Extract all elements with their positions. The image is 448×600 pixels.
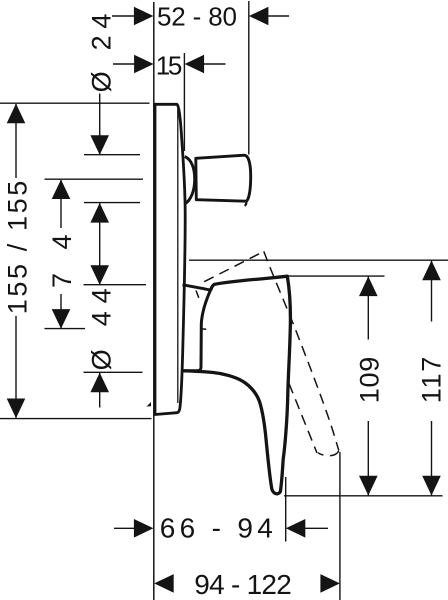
svg-text:Ø 24: Ø 24 [87,14,117,93]
arrow right 66-94 left [134,519,154,538]
plate front face inner line [177,109,179,403]
sleeve front edge [184,325,202,371]
dashed top edge [204,251,264,281]
svg-text:109: 109 [355,357,385,404]
tick lever axis [45,328,86,330]
dimension dia24 line [99,94,101,155]
lever cap skirt line [201,290,210,325]
knob neck arc [185,157,195,204]
dimension 117 line [431,261,433,322]
extension line plate bottom [0,418,152,420]
dimension texts [156,1,237,80]
svg-text:117: 117 [417,357,447,404]
svg-text:Ø 44: Ø 44 [87,288,117,370]
dimension 109 line [367,276,369,339]
wall line [153,2,155,600]
arrow up dia44 bottom [90,373,109,393]
svg-text:15: 15 [156,51,183,81]
dimension 155/155 line [15,104,17,178]
lever cap and blade outline [184,276,291,494]
arrow up 155 top [7,104,26,124]
svg-text:74: 74 [47,235,77,289]
arrow left 94-122 left [154,574,174,593]
dashed cap edge near sleeve [196,291,199,298]
arrow right 94-122 right [320,574,340,593]
dashed open-position lever [196,251,339,455]
arrow up 74 top [52,180,71,200]
arrow down dia44 top [90,265,109,285]
tick sleeve top [84,284,147,286]
arrow up 109 top [359,276,378,296]
dimension dia44 line [99,373,101,408]
arrow down 74 bottom [52,309,71,329]
tick knob bottom [84,202,140,204]
dashed tip arc [318,451,339,456]
extension line plate top [0,102,150,104]
extension line 109 top [289,275,385,277]
volume knob [196,155,251,201]
dashed small tick near sleeve bottom [200,328,206,331]
extension line right of 52-80 [248,1,250,155]
svg-text:66 - 94: 66 - 94 [160,512,273,543]
dashed inner edge [289,384,317,454]
triangle mark plate bottom left [147,402,152,407]
extension line right of 15 [183,53,185,151]
svg-text:155 / 155: 155 / 155 [3,181,33,315]
sleeve top edge [183,285,211,290]
dimension 74 line [60,180,62,228]
arrow down 109 bottom [359,476,378,496]
arrow left 66-94 right [286,519,306,538]
dimension 52-80 line [112,15,136,17]
extension line 94-122 right [339,452,341,600]
tick sleeve bottom [84,371,143,373]
svg-text:94 - 122: 94 - 122 [194,569,291,600]
extension line lever tip bottom [284,495,443,497]
knob bottom corner stub [245,201,247,206]
arrow up 117 top [422,261,441,281]
arrow right 52-80 left [134,7,154,26]
dimension 15 line [113,63,136,65]
extension line 117 top [189,259,448,261]
tick knob top [84,154,140,156]
extension line 66-94 right [285,477,287,542]
arrow left 52-80 right [249,7,269,26]
arrow down 117 bottom [422,476,441,496]
arrow up dia24 bottom [90,203,109,223]
dimension 66-94 line [114,527,136,529]
arrow right 15 left [134,55,154,74]
arrow down 155 bottom [7,399,26,419]
escutcheon plate outline [155,104,290,493]
dashed outer edge [264,251,339,450]
arrow down dia24 top [90,135,109,155]
arrow left 15 right [185,55,205,74]
tick knob axis [45,178,144,180]
svg-text:52 - 80: 52 - 80 [157,1,237,31]
